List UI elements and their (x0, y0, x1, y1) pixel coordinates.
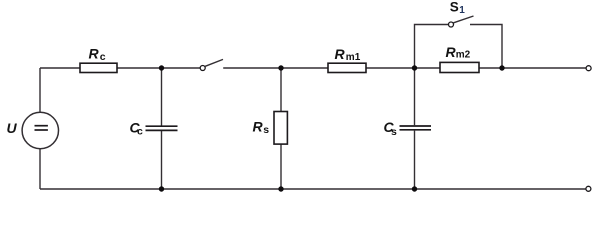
svg-text:m1: m1 (346, 52, 361, 63)
svg-text:s: s (263, 124, 269, 136)
svg-text:R: R (253, 119, 264, 135)
svg-text:s: s (391, 126, 397, 138)
svg-text:m2: m2 (456, 50, 471, 61)
svg-text:U: U (7, 120, 18, 136)
svg-text:S: S (450, 0, 459, 14)
svg-text:c: c (137, 126, 143, 138)
svg-text:c: c (100, 51, 106, 63)
svg-text:1: 1 (459, 5, 465, 16)
svg-text:R: R (335, 46, 346, 62)
svg-text:R: R (89, 46, 100, 62)
